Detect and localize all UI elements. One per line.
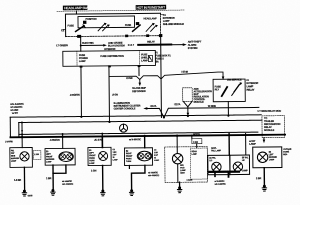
defogger arrow	[139, 79, 141, 82]
lamp box 3	[88, 147, 111, 165]
drop 8	[245, 133, 247, 155]
bus line L1	[10, 115, 262, 117]
wire relay to bus	[227, 102, 229, 116]
svg-text:FUSE: FUSE	[68, 24, 75, 27]
asr label block	[193, 88, 212, 104]
glass ramp defogger label	[132, 87, 146, 93]
label right outside	[156, 52, 172, 63]
svg-text:LAMP: LAMP	[154, 159, 160, 162]
terminal blob T1	[83, 21, 86, 24]
stub below	[227, 172, 229, 176]
ground G3	[101, 189, 105, 195]
right dashed callout box	[262, 116, 285, 138]
connector circle splice	[119, 124, 127, 132]
svg-text:MODULE: MODULE	[264, 129, 275, 132]
svg-text:HOT IN RUN/START: HOT IN RUN/START	[136, 5, 166, 9]
dual lamp symbol L2	[59, 152, 73, 162]
wire headlamp switch left drop	[80, 36, 82, 51]
svg-text:JU 2 RD: JU 2 RD	[94, 139, 103, 142]
node L1 left feed	[80, 116, 82, 118]
switch contact S3	[133, 25, 141, 31]
svg-text:w/o 4-MATIC: w/o 4-MATIC	[215, 183, 227, 186]
junction tick J3	[101, 134, 103, 137]
svg-text:1.5 BR: 1.5 BR	[14, 179, 21, 182]
svg-text:FAILURE MODULE: FAILURE MODULE	[163, 22, 184, 26]
lamp box R1	[253, 147, 282, 168]
label w/ RT	[249, 140, 256, 146]
drop 7	[228, 134, 230, 156]
svg-text:LAMP: LAMP	[191, 153, 197, 156]
junction tick J1	[21, 134, 23, 137]
svg-text:1 GAB: 1 GAB	[187, 179, 193, 182]
svg-text:LT GREEN: LT GREEN	[56, 44, 68, 47]
svg-text:LAMP: LAMP	[180, 169, 186, 172]
ground wire 2 merge	[52, 165, 54, 189]
svg-text:w/ 4-MATIC: w/ 4-MATIC	[215, 180, 225, 183]
asr dashed box	[183, 88, 193, 102]
anti-theft arrow	[171, 44, 182, 46]
bus left edge inner	[18, 123, 20, 138]
svg-text:LAMP: LAMP	[141, 59, 148, 62]
svg-text:w/ FOG: w/ FOG	[193, 134, 200, 136]
lamp box 4	[124, 148, 152, 166]
svg-text:ADD'L: ADD'L	[211, 147, 218, 150]
divider dashed right	[138, 51, 140, 66]
ground wire 4 elbow	[131, 165, 145, 189]
svg-text:LAMP: LAMP	[249, 143, 256, 146]
connector text right of box 4	[154, 148, 160, 161]
text in box B	[242, 156, 249, 162]
ground wire 1	[23, 167, 25, 190]
svg-text:HEADLAMP: HEADLAMP	[143, 17, 157, 20]
ground G2	[51, 189, 55, 195]
svg-text:I 117A: I 117A	[174, 103, 181, 106]
svg-text:I 117A: I 117A	[150, 105, 157, 108]
wire right feed (parking lamp)	[160, 36, 163, 118]
svg-text:w/o 4-MATIC: w/o 4-MATIC	[148, 174, 160, 177]
svg-text:.8 RD/GN: .8 RD/GN	[70, 94, 80, 97]
relay switch arrow	[232, 83, 241, 95]
switch inner rectangle	[78, 16, 135, 28]
svg-text:DEFOGGER: DEFOGGER	[132, 90, 146, 93]
svg-text:ELECTRIC: ELECTRIC	[82, 42, 94, 45]
wire left feed to bus	[80, 66, 82, 117]
bus line L2	[19, 120, 262, 122]
svg-text:INTERIOR: INTERIOR	[104, 48, 115, 51]
text in box A	[209, 157, 216, 163]
svg-text:w/ 4-MATIC: w/ 4-MATIC	[129, 138, 141, 141]
svg-text:1 BR: 1 BR	[256, 177, 262, 180]
ground G1	[22, 190, 26, 196]
svg-text:DISTRIBUTION: DISTRIBUTION	[107, 55, 124, 58]
left margin option labels	[10, 103, 24, 115]
callout text	[264, 117, 281, 132]
lamp box 2	[45, 148, 75, 165]
stub below box 4 left	[128, 165, 130, 168]
dual lamp symbol L4	[137, 151, 151, 161]
bus left edge outer	[9, 117, 11, 137]
asr wire V to bus	[183, 101, 192, 106]
terminal blob T2	[136, 22, 139, 25]
svg-text:LAMP: LAMP	[113, 158, 119, 161]
svg-text:LAMP: LAMP	[269, 158, 275, 161]
inner dashed box	[190, 148, 207, 179]
lamp box A	[208, 155, 230, 175]
svg-text:RELAY: RELAY	[147, 41, 155, 44]
svg-text:CENTER CONSOLE: CENTER CONSOLE	[114, 107, 136, 110]
svg-text:TAIL LAMP: TAIL LAMP	[211, 149, 222, 152]
connector text right of box 3	[113, 149, 119, 161]
svg-text:SYSTEM: SYSTEM	[188, 47, 198, 50]
svg-text:LAMP: LAMP	[11, 160, 17, 163]
svg-text:LAMP: LAMP	[79, 60, 86, 63]
drop 2	[62, 137, 64, 149]
wire mid feed to bus	[108, 66, 111, 122]
label fuse power	[79, 54, 88, 63]
ground G6	[262, 185, 266, 191]
svg-text:POSITION: POSITION	[85, 18, 96, 21]
left connector tick label	[63, 29, 65, 31]
lamp symbol A	[212, 162, 221, 171]
node on L2	[108, 121, 110, 123]
svg-text:.5 RD/GN: .5 RD/GN	[50, 139, 60, 142]
svg-text:FUSE: FUSE	[125, 24, 132, 27]
bottom terminal blob T3b	[125, 35, 128, 38]
exterior lamp relay box	[213, 79, 245, 102]
svg-text:MARKER: MARKER	[269, 156, 278, 159]
connector tick right	[160, 14, 163, 16]
junction tick J2	[62, 134, 64, 137]
svg-text:E5 TAIL: E5 TAIL	[242, 156, 249, 159]
svg-text:LAMP: LAMP	[46, 161, 52, 164]
terminal blob under box mid	[108, 65, 111, 67]
svg-text:RELAY: RELAY	[246, 88, 254, 92]
fog dashed box	[165, 147, 208, 183]
relay thick bar	[138, 44, 171, 46]
headlamp switch header box	[63, 5, 89, 10]
parking branch arrow	[81, 44, 103, 46]
drop 6	[191, 136, 193, 139]
text block in box 2	[46, 151, 55, 163]
fuse symbol inner square	[148, 55, 152, 61]
junction J5	[176, 134, 178, 136]
lamp symbol L1	[20, 152, 29, 161]
lamp symbol L3	[99, 151, 108, 160]
node asr	[187, 115, 189, 117]
svg-text:MODULE: MODULE	[194, 101, 205, 104]
svg-text:HEADLAMP SW: HEADLAMP SW	[64, 6, 88, 10]
svg-text:1117: 1117	[128, 44, 135, 47]
dashed link line under headers	[57, 10, 185, 11]
svg-text:MARKER: MARKER	[46, 158, 55, 161]
label right of R1	[283, 148, 292, 156]
label right inside	[141, 53, 150, 62]
text in R1	[269, 152, 278, 162]
fog lamp label	[180, 165, 186, 175]
wire defogger stub	[138, 66, 140, 76]
svg-text:TURN: TURN	[126, 161, 132, 163]
switch contact S1	[76, 26, 85, 32]
lamp drop 1	[21, 122, 23, 147]
svg-text:.8 GN: .8 GN	[112, 93, 118, 96]
terminal blob under box right	[138, 65, 141, 67]
text block in box 4	[126, 151, 133, 163]
illumination line	[147, 107, 259, 117]
node on bus	[163, 116, 165, 118]
lamp box 1	[10, 147, 33, 167]
connector box C2	[192, 139, 202, 144]
lamp symbol fog	[172, 153, 182, 163]
relay contact blob	[222, 87, 228, 96]
node drop1 on L2	[21, 121, 23, 123]
lamp symbol B	[233, 162, 242, 171]
svg-text:OUTAGE: OUTAGE	[283, 148, 292, 151]
lamp symbol R1	[257, 152, 267, 162]
illumination label	[114, 102, 141, 111]
callout wire arrow down	[263, 137, 265, 140]
illumination arrow	[143, 107, 147, 110]
svg-text:MARKER: MARKER	[11, 157, 20, 160]
anti-theft alarm label	[188, 40, 202, 50]
svg-text:I 5748: I 5748	[181, 71, 188, 74]
fuse label inside	[215, 85, 222, 91]
svg-text:E4 TAIL: E4 TAIL	[209, 157, 216, 160]
bottom terminal blob T3	[77, 35, 81, 38]
mini connector between	[33, 151, 41, 160]
node at parking feed row	[80, 45, 82, 47]
ground G5	[177, 186, 181, 192]
svg-text:w/ RT: w/ RT	[12, 112, 19, 115]
text block in box 1	[11, 150, 20, 162]
switch contact S2	[98, 24, 105, 31]
function group top edge with notches	[109, 72, 223, 80]
exterior lamp failure module label	[163, 14, 184, 26]
ground wire R1	[263, 168, 265, 185]
label fuse distribution	[100, 55, 124, 58]
bus line L3 dashed	[19, 132, 258, 134]
ground wire fog	[177, 164, 179, 182]
junction J6	[191, 134, 193, 136]
thick bottom bar A/B	[209, 171, 238, 173]
svg-text:PARK/: PARK/	[126, 157, 132, 160]
svg-text:1 GN: 1 GN	[91, 169, 97, 172]
ground wire 3	[102, 165, 104, 189]
switch contact S4	[146, 24, 153, 32]
node relay feed	[227, 115, 229, 117]
svg-text:.5 GY/RD: .5 GY/RD	[5, 141, 14, 143]
power distribution box	[63, 50, 156, 66]
right label exterior lamp relay	[246, 80, 258, 92]
svg-text:PARK/: PARK/	[89, 157, 95, 160]
terminal blob under box left	[80, 66, 83, 68]
drop 4	[144, 136, 146, 148]
drop 3 thick	[101, 136, 103, 147]
node drop1 mid	[21, 130, 23, 132]
ignition switch header box	[136, 5, 167, 10]
junction J4	[143, 135, 145, 137]
bottom terminal blob T4	[159, 34, 162, 37]
svg-text:REAR: REAR	[191, 150, 197, 153]
headlamp switch outer box	[65, 13, 160, 36]
svg-text:SW SERVICE: SW SERVICE	[227, 78, 242, 81]
label below box A	[215, 180, 227, 186]
bus line L4 thick	[10, 135, 285, 138]
drop 5 fog	[176, 136, 178, 153]
tick to switch box top	[75, 11, 77, 14]
svg-text:I 5748: I 5748	[126, 77, 133, 80]
stub below box A	[214, 173, 216, 177]
svg-text:w/o 4-MATIC: w/o 4-MATIC	[62, 183, 74, 186]
addl tail label	[211, 147, 222, 153]
bottom terminal blob T3c	[146, 34, 149, 37]
divider dashed left	[76, 51, 78, 66]
option label	[62, 180, 74, 186]
ground G4	[129, 189, 133, 195]
svg-text:w/ 4-MATIC: w/ 4-MATIC	[62, 180, 72, 183]
svg-text:1 T SIGN RELAY MOD: 1 T SIGN RELAY MOD	[257, 110, 281, 113]
svg-text:RLY: RLY	[215, 88, 220, 91]
svg-text:LAMP: LAMP	[89, 162, 95, 165]
lamp box B	[230, 155, 250, 175]
svg-text:LAMP: LAMP	[242, 169, 248, 172]
text block in box 3	[89, 150, 96, 165]
svg-text:w/ 4-MATIC: w/ 4-MATIC	[148, 171, 158, 174]
svg-text:1 BR: 1 BR	[46, 177, 52, 180]
svg-text:8A: 8A	[156, 59, 159, 63]
svg-text:FUSE: FUSE	[100, 55, 107, 58]
